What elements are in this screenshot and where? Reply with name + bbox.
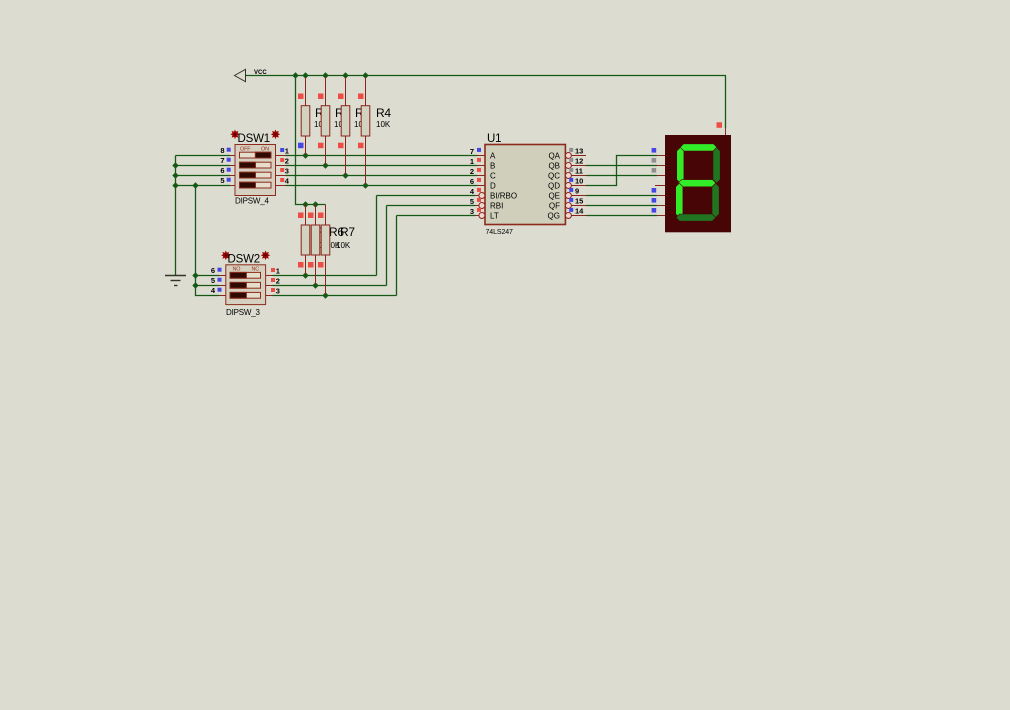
U1 pin number 11 — [569, 167, 583, 176]
svg-text:DIPSW_4: DIPSW_4 — [235, 197, 269, 206]
display segment f lit — [677, 147, 684, 183]
wire DSW1 left pin7 — [176, 165, 231, 167]
svg-text:6: 6 — [211, 266, 215, 275]
wire U1 QE to display pin5 — [586, 195, 657, 197]
wire VCC rail — [246, 75, 726, 77]
junction R6 bottom — [312, 282, 318, 288]
resistor R1 — [298, 77, 330, 154]
resistor R5 — [298, 205, 331, 275]
wire net C row DSW1 to U1 — [286, 175, 478, 177]
wire U1 QB to display pin2 — [586, 165, 657, 167]
display segment e lit — [676, 183, 683, 217]
wire net LT U1 to vertical — [397, 215, 476, 217]
dip switch DSW2 — [219, 265, 273, 305]
DSW1 pin number 3 — [280, 167, 289, 176]
junction rail-R1 — [302, 72, 308, 78]
wire net B row DSW1 to U1 — [286, 165, 478, 167]
DSW1 origin marker left — [230, 130, 240, 140]
DSW1 pin number 5 — [220, 176, 230, 185]
wire U1 QD jog to display pin1 — [586, 156, 657, 186]
svg-text:NC: NC — [252, 267, 260, 273]
svg-text:3: 3 — [276, 287, 280, 296]
wire DSW2 left pin5 — [196, 285, 220, 287]
svg-text:12: 12 — [575, 157, 583, 166]
7-segment display body — [655, 128, 731, 232]
display segment d unlit — [676, 214, 716, 221]
DSW2 pin number 5 — [211, 276, 222, 285]
svg-text:QF: QF — [549, 202, 560, 211]
wire U1 QF to display pin6 — [586, 205, 657, 207]
U1 pin number 3 — [470, 207, 481, 216]
svg-text:2: 2 — [470, 167, 474, 176]
display segment b unlit — [713, 147, 720, 183]
svg-text:10: 10 — [575, 177, 583, 186]
wire vertical LT to DSW2 row3 — [396, 216, 398, 296]
dip switch DSW1 — [230, 145, 286, 196]
svg-text:9: 9 — [575, 187, 579, 196]
svg-text:14: 14 — [575, 207, 584, 216]
junction R5 top — [302, 201, 308, 207]
svg-text:QD: QD — [548, 182, 560, 191]
wire net D row DSW1 to U1 — [286, 185, 478, 187]
svg-text:A: A — [490, 152, 496, 161]
svg-text:R7: R7 — [340, 225, 355, 239]
U1 pin number 14 — [569, 207, 584, 216]
junction ground-pin6 — [172, 172, 178, 178]
U1 pin number 13 — [569, 147, 583, 156]
resistor R4 — [358, 77, 391, 184]
U1 pin number 10 — [569, 177, 583, 186]
DSW2 origin marker right — [261, 251, 271, 261]
svg-text:U1: U1 — [487, 133, 501, 145]
resistor R2 — [318, 77, 350, 164]
DSW1 origin marker right — [271, 130, 281, 140]
junction R1-netA — [302, 152, 308, 158]
svg-text:2: 2 — [276, 277, 280, 286]
U1 pin number 12 — [569, 157, 583, 166]
wire DSW2 left pin6 — [196, 275, 220, 277]
junction DSW2 common6 — [192, 272, 198, 278]
U1 pin number 4 — [470, 187, 481, 196]
display segment a lit — [680, 144, 717, 151]
power symbol VCC arrow — [235, 69, 246, 81]
U1 pin number 6 — [470, 177, 481, 186]
wire DSW2 pin1 row to R5 and vertical — [273, 275, 377, 277]
wire branch to DSW2 commons — [196, 186, 220, 296]
resistor R7 — [318, 205, 355, 295]
display top red marker — [717, 122, 723, 128]
U1 pin number 1 — [470, 157, 481, 166]
DSW1 pin number 2 — [280, 157, 289, 166]
resistor R3 — [338, 77, 370, 174]
junction rail-R2 — [322, 72, 328, 78]
svg-text:QG: QG — [548, 212, 560, 221]
display segment c unlit — [712, 183, 719, 217]
DSW1 pin number 7 — [220, 156, 230, 165]
DSW1 pin number 6 — [220, 166, 230, 175]
DSW2 pin number 2 — [271, 277, 280, 286]
junction R6 top — [312, 201, 318, 207]
svg-text:5: 5 — [211, 276, 215, 285]
svg-text:3: 3 — [285, 167, 289, 176]
DSW1 pin number 1 — [280, 147, 289, 156]
wire net RBI U1 to vertical — [387, 205, 476, 207]
wire ground vertical — [175, 156, 177, 276]
wire vertical RBI to DSW2 row2 — [386, 206, 388, 286]
svg-text:5: 5 — [220, 176, 224, 185]
svg-text:10K: 10K — [336, 241, 351, 250]
svg-text:5: 5 — [470, 197, 474, 206]
junction rail-R3 — [342, 72, 348, 78]
svg-text:R4: R4 — [376, 106, 391, 120]
svg-text:1: 1 — [276, 267, 280, 276]
wire DSW1 left pin6 — [176, 175, 231, 177]
svg-text:QC: QC — [548, 172, 560, 181]
svg-text:DIPSW_3: DIPSW_3 — [226, 308, 260, 317]
svg-text:OFF: OFF — [240, 147, 251, 153]
svg-text:11: 11 — [575, 167, 583, 176]
U1 pin number 2 — [470, 167, 481, 176]
junction ground-pin5 — [172, 182, 178, 188]
junction rail-R branch — [292, 72, 298, 78]
display pin squares — [652, 148, 657, 213]
svg-text:BI/RBO: BI/RBO — [490, 192, 517, 201]
wire U1 QC to display pin3 — [586, 175, 657, 177]
wire net A row DSW1 to U1 — [286, 155, 478, 157]
svg-text:1: 1 — [285, 147, 289, 156]
ground symbol — [165, 276, 186, 286]
svg-text:1: 1 — [470, 157, 474, 166]
svg-text:RBI: RBI — [490, 202, 503, 211]
svg-text:6: 6 — [470, 177, 474, 186]
wire DSW2 pin2 row to R6 and vertical — [273, 285, 387, 287]
wire branch x295 down to R5-R7 feed — [296, 76, 326, 205]
svg-text:2: 2 — [285, 157, 289, 166]
DSW1 pin number 8 — [220, 146, 230, 155]
op chip U1 74LS247 — [476, 145, 587, 225]
svg-text:ON: ON — [261, 147, 269, 153]
svg-text:3: 3 — [470, 207, 474, 216]
junction DSW2 branch — [192, 182, 198, 188]
svg-text:VCC: VCC — [254, 70, 267, 76]
U1 pin number 9 — [569, 187, 579, 196]
svg-text:QA: QA — [548, 152, 560, 161]
junction ground-pin7 — [172, 162, 178, 168]
svg-text:8: 8 — [220, 146, 224, 155]
svg-text:6: 6 — [220, 166, 224, 175]
DSW2 origin marker left — [221, 251, 231, 261]
svg-text:7: 7 — [220, 156, 224, 165]
junction R2-netB — [322, 162, 328, 168]
svg-text:NO: NO — [233, 267, 241, 273]
U1 pin number 5 — [470, 197, 481, 206]
svg-text:C: C — [490, 172, 496, 181]
DSW2 pin number 1 — [271, 267, 280, 276]
display segment g lit — [678, 180, 716, 187]
U1 pin number 7 — [470, 147, 481, 156]
junction R4-netD — [362, 182, 368, 188]
junction R3-netC — [342, 172, 348, 178]
junction R5 bottom — [302, 272, 308, 278]
DSW1 pin number 4 — [280, 177, 290, 186]
svg-text:10K: 10K — [376, 120, 391, 129]
svg-text:B: B — [490, 162, 495, 171]
svg-text:15: 15 — [575, 197, 583, 206]
svg-text:DSW2: DSW2 — [228, 254, 260, 266]
U1 pin number 15 — [569, 197, 583, 206]
DSW2 pin number 4 — [211, 286, 222, 295]
wire DSW1 left pin5 — [176, 185, 231, 187]
svg-text:D: D — [490, 182, 496, 191]
wire U1 QG to display pin7 — [586, 215, 657, 217]
junction DSW2 common5 — [192, 282, 198, 288]
svg-text:7: 7 — [470, 147, 474, 156]
wire vertical BI/RBO to DSW2 row1 — [376, 196, 378, 276]
svg-text:QB: QB — [548, 162, 560, 171]
svg-text:DSW1: DSW1 — [238, 133, 270, 145]
svg-text:13: 13 — [575, 147, 583, 156]
DSW2 pin number 3 — [271, 287, 280, 296]
svg-text:74LS247: 74LS247 — [486, 229, 514, 236]
svg-text:LT: LT — [490, 212, 499, 221]
junction rail-R4 — [362, 72, 368, 78]
wire DSW1 left pin8 to ground rail — [176, 155, 231, 157]
wire DSW2 pin3 row to R7 and vertical — [273, 295, 397, 297]
DSW2 pin number 6 — [211, 266, 222, 275]
wire net BI/RBO U1 to vertical — [377, 195, 476, 197]
svg-text:QE: QE — [548, 192, 560, 201]
wire VCC to display top pin — [725, 76, 727, 129]
junction R7 bottom — [322, 292, 328, 298]
resistor R6 — [308, 205, 344, 285]
